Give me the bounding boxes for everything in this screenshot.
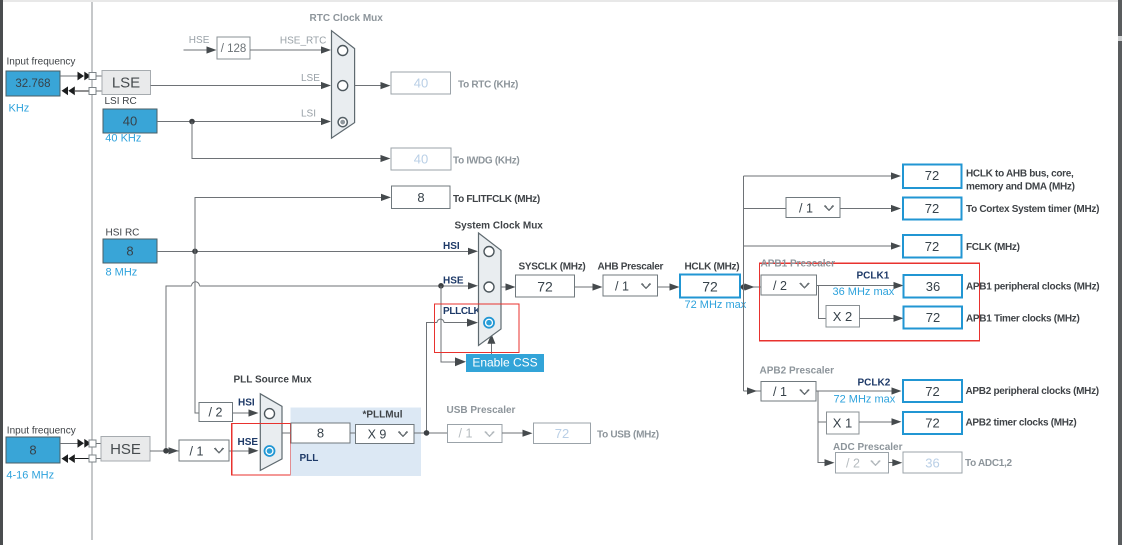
AHB prescaler dropdown /1 [603, 275, 658, 296]
PLL source mux body [260, 394, 282, 471]
svg-text:72: 72 [925, 416, 939, 431]
svg-text:LSI: LSI [301, 109, 316, 120]
svg-text:To IWDG (KHz): To IWDG (KHz) [453, 156, 519, 167]
node: HCLK to AHB bus label [966, 169, 1075, 193]
wire /1 to PLL mux HSE [229, 447, 259, 454]
wire APB1 branch down to X2 [818, 286, 826, 319]
APB1 timer value box 72 [904, 307, 963, 329]
wire PLLCLK up to mux with hop over CSS branch [427, 319, 479, 433]
svg-text:APB2 timer clocks (MHz): APB2 timer clocks (MHz) [966, 418, 1077, 429]
svg-text:To Cortex System timer (MHz): To Cortex System timer (MHz) [966, 204, 1099, 215]
junction PLLCLK takeoff [424, 430, 430, 436]
svg-text:8: 8 [29, 443, 36, 458]
svg-text:/ 2: / 2 [773, 279, 787, 293]
svg-text:/ 2: / 2 [846, 457, 860, 471]
red highlight rect PLL HSE selection [232, 424, 291, 476]
svg-text:8: 8 [417, 190, 424, 205]
wire HSE branch up with hop over HSI branch [166, 282, 478, 451]
junction HSE source [163, 448, 169, 454]
LSI RC value box 40 [103, 109, 157, 133]
svg-text:SYSCLK (MHz): SYSCLK (MHz) [519, 262, 586, 273]
wire square to LSE block lower [96, 90, 102, 92]
svg-text:To FLITFCLK (MHz): To FLITFCLK (MHz) [453, 194, 540, 205]
To IWDG value box [391, 148, 451, 170]
APB1 prescaler dropdown /2 [761, 275, 817, 295]
RTC mux radio LSE (off) [338, 81, 348, 91]
svg-text:APB2 Prescaler: APB2 Prescaler [760, 366, 835, 377]
sys mux radio HSI (off) [484, 247, 494, 257]
svg-text:/ 2: / 2 [209, 406, 223, 420]
wire SYSCLK to AHB prescaler [575, 283, 603, 290]
wire USB prescaler to USB box [502, 430, 533, 437]
frame left dark bar [0, 0, 3, 545]
HSI RC value box 8 [103, 239, 157, 263]
ADC prescaler dropdown /2 (inactive) [836, 453, 889, 474]
svg-text:LSE: LSE [301, 73, 320, 84]
wire branch to X1 [818, 421, 827, 423]
svg-text:/ 1: / 1 [799, 202, 813, 216]
svg-text:HSE: HSE [443, 276, 464, 287]
svg-text:32.768: 32.768 [15, 78, 50, 90]
HCLK distribution rail [743, 176, 745, 391]
svg-text:/ 1: / 1 [190, 445, 204, 459]
wire LSI branch down to IWDG [192, 122, 381, 159]
wire X1 to APB2 timer box [859, 418, 902, 425]
APB1 peripheral value box 36 [904, 275, 963, 298]
svg-text:4-16 MHz: 4-16 MHz [6, 470, 54, 482]
svg-text:USB Prescaler: USB Prescaler [447, 405, 516, 416]
PLLMul dropdown X9 [356, 425, 415, 444]
frame right dark scrollbar [1118, 0, 1122, 545]
svg-text:72: 72 [555, 426, 569, 441]
svg-text:/ 128: / 128 [221, 43, 247, 55]
wire rail to FCLK [744, 242, 901, 249]
arrow Enable CSS up into mux [487, 334, 495, 354]
svg-text:APB1 Timer clocks (MHz): APB1 Timer clocks (MHz) [966, 314, 1080, 325]
svg-text:40: 40 [414, 152, 428, 167]
rail connector square LSE top [89, 73, 96, 80]
HSE prediv dropdown /1 [179, 440, 229, 461]
wire square to HSE block lower [96, 458, 101, 460]
cortex prescaler dropdown /1 [786, 198, 840, 218]
junction HSE to CSS [438, 283, 444, 289]
junction LSI branch [189, 119, 195, 125]
PLL block background [291, 408, 422, 477]
RTC mux radio LSI (selected gray) [338, 118, 347, 127]
svg-text:Input frequency: Input frequency [7, 57, 76, 68]
svg-text:40: 40 [414, 76, 428, 91]
svg-text:PLL: PLL [300, 453, 319, 464]
svg-text:36: 36 [925, 456, 939, 471]
wire HSE stub to /128 [184, 46, 217, 53]
wire ADC prescaler to ADC box [889, 459, 903, 466]
svg-text:PLL Source Mux: PLL Source Mux [234, 375, 313, 386]
arrow into APB1 domain [745, 283, 755, 290]
wire HCLK to rail [740, 286, 761, 288]
svg-text:X 2: X 2 [833, 309, 853, 324]
divider /2 box (PLL HSI) [199, 403, 233, 422]
wire CSS branch down to Enable CSS [441, 286, 466, 366]
svg-text:AHB Prescaler: AHB Prescaler [598, 262, 664, 273]
SYSCLK value box 72 [516, 275, 575, 297]
wire X2 to APB1 timer box [860, 315, 904, 322]
svg-text:X 1: X 1 [833, 416, 853, 431]
svg-text:PCLK1: PCLK1 [857, 271, 890, 282]
wire PLL mux output stub [282, 432, 291, 434]
wire rail to HCLK AHB output [744, 172, 901, 179]
HCLK to AHB value box 72 [903, 165, 962, 189]
svg-text:LSE: LSE [112, 75, 140, 92]
arrow into IWDG box [381, 155, 391, 162]
To USB value box 72 (inactive) [534, 423, 591, 444]
APB2 peripheral value box 72 [903, 380, 962, 402]
svg-text:To RTC (KHz): To RTC (KHz) [458, 80, 518, 91]
To ADC value box 36 (inactive) [903, 452, 962, 473]
APB2 timer value box 72 [903, 412, 962, 434]
svg-text:72: 72 [925, 201, 939, 216]
wire HSE source to /1 prediv [150, 450, 179, 452]
svg-text:72: 72 [925, 239, 939, 254]
svg-text:72 MHz max: 72 MHz max [685, 299, 747, 311]
svg-text:To ADC1,2: To ADC1,2 [965, 458, 1012, 469]
svg-text:PLLCLK: PLLCLK [443, 306, 481, 317]
svg-text:72: 72 [702, 279, 718, 295]
wire LSE block to RTC mux [150, 82, 331, 89]
double arrow left HSE return [62, 454, 90, 463]
frame top strip [3, 0, 1118, 2]
PLL input value box 8 [291, 423, 350, 443]
RTC clock mux body [332, 31, 355, 138]
Enable CSS button [466, 354, 544, 372]
To RTC value box [391, 72, 451, 94]
junction HSI branch [192, 249, 198, 255]
svg-text:RTC Clock Mux: RTC Clock Mux [310, 13, 384, 24]
svg-text:36 MHz max: 36 MHz max [833, 286, 895, 298]
svg-text:36: 36 [926, 279, 940, 294]
PLL mux radio HSE (selected blue) [265, 446, 275, 456]
svg-text:HSE: HSE [189, 35, 210, 46]
multiplier X2 box [826, 306, 860, 328]
svg-text:APB1 peripheral clocks (MHz): APB1 peripheral clocks (MHz) [966, 282, 1099, 293]
rail connector square LSE bottom [89, 87, 96, 94]
svg-text:PCLK2: PCLK2 [858, 378, 891, 389]
svg-text:HSE_RTC: HSE_RTC [280, 36, 327, 47]
wire 8 box to PLLMul [350, 432, 356, 434]
svg-text:/ 1: / 1 [459, 427, 473, 441]
LSE source block [102, 71, 150, 95]
wire rail corner to APB2 prescaler [744, 390, 761, 392]
wire cortex prescaler to cortex box [840, 205, 901, 212]
sys mux radio PLLCLK (selected blue) [484, 318, 494, 328]
svg-text:X 9: X 9 [368, 428, 387, 442]
wire HSI RC to system clock mux [157, 248, 478, 255]
svg-text:72: 72 [537, 279, 553, 295]
svg-text:Input frequency: Input frequency [7, 426, 76, 437]
wire LSE box to double arrow [60, 75, 78, 77]
USB prescaler dropdown /1 (inactive) [448, 425, 503, 443]
wire APB2 prescaler to APB2 periph box [816, 387, 902, 394]
HCLK value box 72 (blue) [680, 275, 740, 298]
arrow into APB2 prescaler [747, 387, 757, 394]
svg-text:*PLLMul: *PLLMul [363, 410, 403, 421]
wire RTC mux to RTC box [355, 82, 391, 89]
svg-text:HCLK to AHB bus, core,: HCLK to AHB bus, core, [966, 169, 1074, 180]
HSE input frequency value box 8 [6, 437, 60, 463]
svg-text:System Clock Mux: System Clock Mux [455, 221, 544, 232]
svg-text:72 MHz max: 72 MHz max [834, 394, 896, 406]
svg-text:APB2 peripheral clocks (MHz): APB2 peripheral clocks (MHz) [966, 386, 1099, 397]
rail connector square HSE top [89, 440, 96, 447]
svg-text:8: 8 [317, 426, 324, 441]
rail connector square HSE bottom [89, 455, 96, 462]
svg-text:ADC Prescaler: ADC Prescaler [833, 442, 903, 453]
red highlight rect PLLCLK selection [435, 304, 520, 353]
multiplier X1 box [827, 412, 860, 434]
svg-text:72: 72 [925, 168, 939, 183]
svg-text:40 KHz: 40 KHz [105, 133, 141, 145]
svg-text:8 MHz: 8 MHz [106, 267, 138, 279]
wire APB2 branch down [818, 391, 825, 463]
svg-text:/ 1: / 1 [773, 385, 787, 399]
wire /128 to RTC mux [250, 46, 331, 53]
PLL mux radio HSI (off) [265, 409, 275, 419]
svg-text:/ 1: / 1 [615, 280, 629, 294]
red highlight rect APB1 section [759, 263, 979, 341]
clock sources rail [91, 2, 93, 540]
svg-text:72: 72 [925, 384, 939, 399]
arrow into /1 prediv [169, 447, 179, 454]
double arrow right HSE [78, 439, 91, 448]
wire PLL out to USB prescaler [414, 432, 448, 434]
RTC mux radio HSE_RTC (off) [338, 46, 348, 56]
LSE input frequency value box 32.768 [6, 71, 60, 96]
svg-text:Enable CSS: Enable CSS [472, 356, 537, 370]
FCLK value box 72 [903, 235, 962, 258]
wire HSI branch up to FLITFCLK [195, 194, 391, 252]
svg-text:To USB (MHz): To USB (MHz) [597, 430, 659, 441]
wire HSE box to double arrow [60, 442, 78, 444]
svg-text:8: 8 [126, 244, 133, 259]
svg-text:memory and DMA (MHz): memory and DMA (MHz) [966, 182, 1075, 193]
wire APB1 prescaler to APB1 periph box [817, 282, 904, 289]
arrow into ADC prescaler [825, 459, 835, 466]
svg-text:HSI RC: HSI RC [106, 228, 140, 239]
APB2 prescaler dropdown /1 [761, 382, 816, 402]
divider /128 box [217, 37, 250, 59]
svg-text:72: 72 [926, 310, 940, 325]
double arrow right LSE [78, 72, 91, 81]
svg-text:HSI: HSI [443, 241, 460, 252]
sys mux radio HSE (off) [484, 282, 494, 292]
system clock mux body [479, 233, 502, 346]
svg-text:LSI RC: LSI RC [105, 96, 137, 107]
wire rail to cortex prescaler [744, 208, 786, 210]
svg-text:HSE: HSE [238, 437, 259, 448]
junction HCLK rail [741, 284, 747, 290]
To FLITFCLK value box [392, 186, 451, 209]
svg-text:HCLK (MHz): HCLK (MHz) [685, 262, 740, 273]
wire AHB to HCLK [658, 283, 680, 290]
wire /2 to PLL mux HSI [233, 409, 259, 416]
svg-text:FCLK (MHz): FCLK (MHz) [966, 242, 1020, 253]
wire LSI block to RTC mux [157, 118, 331, 125]
wire sys mux to SYSCLK box [501, 283, 516, 290]
wire square to LSE block [96, 75, 102, 77]
svg-text:APB1 Prescaler: APB1 Prescaler [761, 259, 836, 270]
svg-text:40: 40 [123, 114, 137, 129]
svg-text:HSE: HSE [110, 441, 141, 458]
wire square to HSE block [96, 442, 101, 444]
Cortex timer value box 72 [903, 198, 962, 220]
HSE source block [101, 437, 150, 462]
svg-text:KHz: KHz [9, 103, 30, 115]
double arrow left LSE return [62, 86, 90, 95]
svg-text:HSI: HSI [238, 398, 255, 409]
wire HSI branch down to PLL /2 [195, 251, 199, 413]
